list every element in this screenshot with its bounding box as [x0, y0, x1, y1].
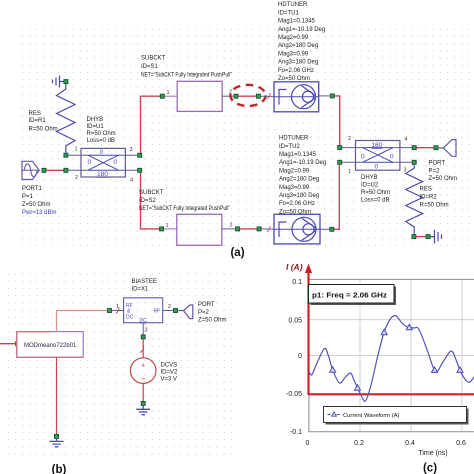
svg-text:2: 2 [230, 223, 233, 229]
svg-text:HDTUNER: HDTUNER [278, 2, 308, 8]
svg-text:ID=R1: ID=R1 [29, 118, 47, 124]
svg-text:ID=S2: ID=S2 [139, 198, 157, 204]
svg-text:DCVS: DCVS [161, 363, 178, 369]
svg-text:Current Waveform (A): Current Waveform (A) [343, 413, 400, 419]
svg-text:p1: Freq = 2.06 GHz: p1: Freq = 2.06 GHz [312, 291, 387, 300]
node ground (right) [426, 235, 430, 239]
svg-text:NET="SubCKT Fully Integrated P: NET="SubCKT Fully Integrated PushPull" [139, 206, 230, 212]
svg-text:ID=U1: ID=U1 [87, 124, 105, 130]
wire MOD to ground (left branch) [56, 357, 58, 434]
hybrid U1 (DHYB) [66, 148, 140, 178]
svg-text:4: 4 [130, 178, 133, 184]
node U2 pin3 [412, 160, 416, 164]
wire TU1 lead with break slash [261, 93, 274, 99]
waveform trace [309, 315, 474, 401]
svg-text:Ang1=-10.19 Deg: Ang1=-10.19 Deg [278, 27, 325, 33]
tuner TU2 (HDTUNER) [274, 214, 320, 244]
svg-text:Zo=50 Ohm: Zo=50 Ohm [278, 76, 310, 82]
svg-text:NET="SubCKT Fully Integrated P: NET="SubCKT Fully Integrated PushPull" [141, 73, 232, 79]
svg-text:Loss=0 dB: Loss=0 dB [361, 198, 390, 204]
svg-text:Fo=2.06 GHz: Fo=2.06 GHz [278, 68, 314, 74]
ground (below DCVS) [136, 406, 150, 415]
svg-text:1: 1 [348, 169, 351, 175]
ground (bottom left) [50, 439, 64, 447]
pin numbers U1 [75, 147, 134, 184]
node MOD input [16, 342, 20, 346]
svg-text:ID=S1: ID=S1 [141, 64, 159, 70]
svg-text:0: 0 [306, 440, 310, 447]
svg-text:Ang3=180 Deg: Ang3=180 Deg [279, 193, 319, 199]
svg-text:I (A): I (A) [286, 262, 303, 272]
svg-text:0: 0 [361, 154, 365, 161]
svg-text:0: 0 [298, 353, 302, 360]
wire TU2 lead with break slash [261, 226, 274, 232]
node TU2 output [330, 227, 334, 231]
svg-text:0: 0 [114, 159, 118, 166]
svg-text:180: 180 [372, 142, 383, 149]
svg-text:PORT: PORT [198, 302, 215, 308]
svg-text:Mag3=0.99: Mag3=0.99 [279, 185, 310, 191]
svg-text:MODmeano722b01: MODmeano722b01 [24, 343, 77, 349]
legend box [324, 407, 469, 425]
svg-text:3: 3 [145, 328, 148, 334]
subckt S2 [164, 214, 238, 245]
svg-text:2: 2 [348, 136, 351, 142]
svg-text:180: 180 [97, 171, 108, 178]
value labels S1 [141, 56, 232, 79]
node S1 pin1 [160, 94, 164, 98]
svg-text:ID=V2: ID=V2 [161, 370, 179, 376]
svg-text:Mag2=0.99: Mag2=0.99 [278, 35, 309, 41]
lead TU2 output [320, 228, 330, 230]
port P=2 (panel a) [438, 140, 456, 157]
value labels PORT2 [429, 161, 458, 183]
wire U1 pin3 to S1 [141, 96, 161, 153]
svg-text:ID=U2: ID=U2 [361, 183, 379, 189]
pin numbers U2 [348, 136, 408, 175]
svg-text:4: 4 [405, 137, 408, 143]
node R2 bottom [412, 235, 416, 239]
source V2 (DCVS) [130, 358, 156, 384]
wire input to MOD block [0, 343, 17, 345]
svg-text:Mag1=0.1345: Mag1=0.1345 [279, 152, 317, 158]
svg-text:-0.05: -0.05 [286, 391, 302, 398]
wire R2 to ground [416, 236, 426, 238]
node U1 pin2 [64, 168, 68, 172]
svg-text:R=50 Ohm: R=50 Ohm [29, 127, 58, 133]
node S2 pin2 [236, 227, 240, 231]
node U2 pin4 [412, 146, 416, 150]
wire U2 pin4 to PORT2 [417, 147, 434, 149]
node U1 pin4 [138, 168, 142, 172]
value labels R2 [420, 187, 449, 209]
wire TU2 to U2 pin1 [334, 165, 339, 230]
svg-text:(a): (a) [230, 247, 244, 259]
node U2 pin1 [338, 160, 342, 164]
svg-text:0: 0 [390, 154, 394, 161]
svg-text:+: + [141, 363, 145, 370]
svg-text:(b): (b) [52, 464, 67, 474]
subckt S1 [165, 81, 237, 111]
svg-text:ID=TU1: ID=TU1 [278, 10, 300, 16]
value labels U2 [361, 175, 390, 204]
svg-text:Loss=0 dB: Loss=0 dB [87, 138, 116, 144]
svg-text:P=2: P=2 [429, 168, 441, 174]
lead BIASTEE pin3 (DC) [142, 323, 144, 335]
node S2 pin1 [160, 227, 164, 231]
chart gridlines [309, 280, 474, 432]
ground (bottom right, rotated) [431, 230, 442, 244]
value labels TU2 [279, 136, 326, 216]
annotation box p1 [309, 285, 397, 306]
svg-text:-0.1: -0.1 [290, 429, 302, 436]
axis I (red) with arrow [305, 264, 474, 396]
port PORT1 [22, 161, 39, 179]
svg-text:2: 2 [168, 304, 171, 310]
chart plot frame [309, 279, 474, 431]
lead BIASTEE pin2 [163, 310, 174, 312]
svg-text:V=3 V: V=3 V [161, 377, 178, 383]
y tick labels [286, 279, 302, 436]
svg-text:0.05: 0.05 [288, 318, 302, 325]
svg-text:1: 1 [167, 90, 170, 96]
svg-text:0: 0 [88, 159, 92, 166]
wire DCVS to ground [142, 383, 144, 401]
svg-text:SUBCKT: SUBCKT [139, 190, 164, 196]
svg-text:ID=R2: ID=R2 [420, 195, 438, 201]
svg-text:0.1: 0.1 [292, 279, 302, 286]
port P=2 (panel b) [178, 305, 193, 319]
lead TU1 output [319, 95, 330, 97]
svg-text:P=2: P=2 [198, 310, 210, 316]
resistor R2 [406, 165, 423, 235]
svg-text:Zo=50 Ohm: Zo=50 Ohm [279, 209, 311, 215]
node S1 pin2 [234, 94, 238, 98]
value labels BIASTEE [132, 279, 157, 293]
svg-text:Mag2=0.99: Mag2=0.99 [279, 168, 310, 174]
svg-text:−: − [141, 375, 146, 384]
svg-text:3: 3 [130, 147, 133, 153]
svg-text:Z=50 Ohm: Z=50 Ohm [198, 318, 227, 324]
hybrid U2 (DHYB) [342, 141, 414, 171]
node U2 pin2 [338, 146, 342, 150]
svg-text:Pwr=13 dBm: Pwr=13 dBm [22, 210, 57, 216]
svg-text:0.6: 0.6 [456, 440, 466, 447]
svg-text:HDTUNER: HDTUNER [279, 136, 309, 142]
tuner TU1 (HDTUNER) [274, 82, 319, 112]
svg-text:Time (ns): Time (ns) [418, 450, 447, 457]
ground (top left, rotated) [53, 76, 64, 88]
svg-text:R=50 Ohm: R=50 Ohm [87, 131, 116, 137]
wire MOD to BIASTEE [57, 311, 108, 332]
block MODmeano722b01 [17, 332, 83, 358]
svg-text:2: 2 [75, 175, 78, 181]
svg-text:DC: DC [126, 315, 134, 321]
value labels DCVS [161, 363, 179, 383]
svg-text:DHYB: DHYB [87, 117, 104, 123]
svg-text:Ang2=180 Deg: Ang2=180 Deg [279, 177, 319, 183]
value labels R1 [29, 111, 58, 133]
node BIASTEE pin1 [108, 309, 112, 313]
node PORT1 output [42, 168, 46, 172]
svg-text:Mag1=0.1345: Mag1=0.1345 [278, 19, 316, 25]
svg-text:Z=50 Ohm: Z=50 Ohm [22, 202, 51, 208]
svg-text:RES: RES [29, 111, 41, 117]
svg-text:P=1: P=1 [22, 194, 34, 200]
junction highlight ellipse (red dashed) [230, 85, 265, 106]
svg-text:PORT: PORT [429, 161, 446, 167]
svg-text:DHYB: DHYB [361, 175, 378, 181]
wire S2 to TU2 [240, 228, 257, 230]
svg-text:PORT1: PORT1 [22, 186, 43, 192]
svg-text:1: 1 [75, 147, 78, 153]
node BIASTEE pin2 [174, 309, 178, 313]
wire DC to DCVS with break slash [140, 339, 144, 358]
value labels PORT1 [22, 186, 57, 216]
node U1 pin1 [64, 153, 68, 157]
svg-text:Z=50 Ohm: Z=50 Ohm [429, 176, 458, 182]
lead BIASTEE pin1 with break slash [112, 307, 124, 313]
node TU1 input [256, 94, 260, 98]
value labels PORT (panel b) [198, 302, 227, 324]
wire PORT1 to U1 pin2 [46, 169, 64, 171]
svg-text:BIASTEE: BIASTEE [132, 279, 157, 285]
svg-text:Fo=2.06 GHz: Fo=2.06 GHz [279, 201, 315, 207]
wire U1 pin4 to S2 [141, 173, 161, 229]
svg-text:Ang3=180 Deg: Ang3=180 Deg [278, 60, 318, 66]
value labels S2 [139, 190, 230, 212]
svg-text:Ang1=-10.19 Deg: Ang1=-10.19 Deg [279, 160, 326, 166]
svg-text:ID=TU2: ID=TU2 [279, 144, 301, 150]
x tick labels [306, 440, 466, 447]
waveform markers [330, 324, 463, 390]
node TU2 input [257, 227, 261, 231]
svg-text:0.4: 0.4 [405, 440, 415, 447]
node BIASTEE pin3 [141, 335, 145, 339]
svg-text:0: 0 [375, 164, 379, 171]
node left ground [55, 434, 59, 438]
svg-text:RES: RES [420, 187, 432, 193]
svg-text:ID=X1: ID=X1 [132, 287, 150, 293]
wire TU1 to U2 pin2 [335, 96, 340, 146]
svg-text:RF: RF [154, 309, 161, 315]
svg-text:R=50 Ohm: R=50 Ohm [361, 190, 390, 196]
wire S1 to TU1 [238, 95, 257, 97]
node DCVS bottom [141, 401, 145, 405]
bias tee X1 (BIASTEE) [124, 298, 163, 324]
value labels U1 [87, 117, 116, 144]
resistor R1 [57, 84, 76, 153]
node PORT2 [434, 146, 438, 150]
svg-text:Ang2=180 Deg: Ang2=180 Deg [278, 43, 318, 49]
node at ground / R1 top [64, 80, 68, 84]
svg-text:0.2: 0.2 [354, 440, 364, 447]
node TU1 output [330, 94, 334, 98]
svg-text:Mag3=0.99: Mag3=0.99 [278, 51, 309, 57]
svg-text:R=50 Ohm: R=50 Ohm [420, 203, 449, 209]
svg-text:0: 0 [100, 149, 104, 156]
svg-text:(c): (c) [423, 463, 437, 474]
svg-text:SUBCKT: SUBCKT [141, 56, 166, 62]
node U1 pin3 [138, 153, 142, 157]
svg-text:1: 1 [166, 223, 169, 229]
value labels TU1 [278, 2, 325, 82]
